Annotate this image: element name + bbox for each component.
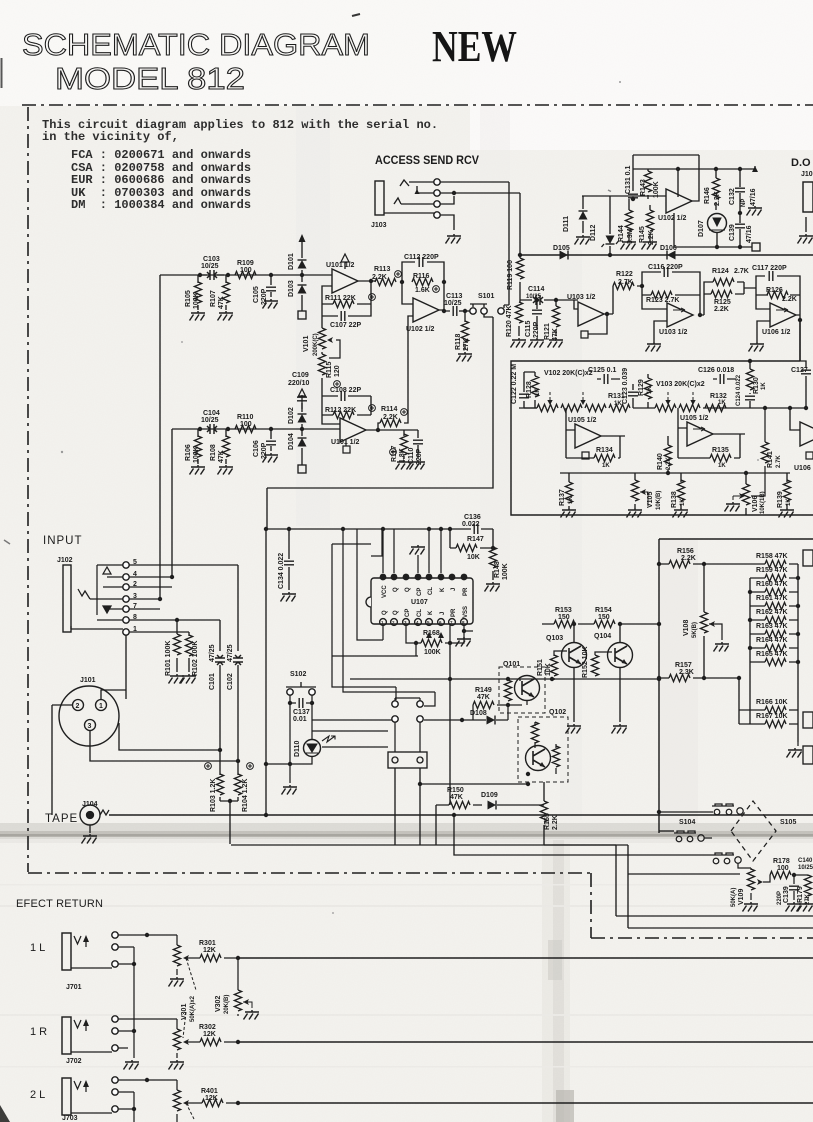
R145 2.2K <box>646 210 653 231</box>
C108 feedback <box>322 396 371 415</box>
R125 <box>704 282 744 294</box>
box outline <box>511 320 813 515</box>
pins <box>123 562 129 568</box>
CH2 main wire <box>172 428 340 430</box>
C124 <box>745 396 755 400</box>
rcv line down to bus <box>519 193 521 253</box>
R137 <box>568 473 570 508</box>
pot V401 <box>173 1090 180 1111</box>
op-amp U104 <box>667 303 693 327</box>
pot V105 <box>634 473 636 508</box>
left drop wire <box>160 275 172 599</box>
IC U107 body <box>371 578 473 624</box>
S102 left leg to ground <box>266 703 290 783</box>
R112 <box>322 415 371 424</box>
diode D102 <box>301 403 303 436</box>
R122 <box>613 282 634 289</box>
R126 <box>756 294 800 296</box>
main bus y=255 <box>521 254 813 256</box>
op-amp U101 1/2 <box>332 269 358 293</box>
edge connector stubs <box>803 550 813 566</box>
C116 loop <box>642 272 700 315</box>
capacitor C104 <box>207 424 217 434</box>
bias resistor in box <box>507 679 509 705</box>
wire up to R122 <box>612 286 614 314</box>
ladder ground <box>797 742 799 746</box>
top pins <box>380 574 468 581</box>
long wire 2L <box>238 1102 813 1104</box>
capacitor C102 <box>233 655 243 665</box>
D111 <box>579 211 588 220</box>
op-amp U102 1/2 <box>413 298 439 322</box>
resistor R105 <box>197 275 199 310</box>
bottom vertical smudge <box>542 840 570 1122</box>
ground <box>263 299 279 309</box>
resistor R103 <box>219 750 221 801</box>
jack J102 body <box>63 565 71 632</box>
op-amp U106 <box>770 303 796 327</box>
bottom pins <box>380 619 468 626</box>
C115 <box>536 300 538 330</box>
output <box>366 316 418 430</box>
R132 <box>705 404 726 411</box>
XLR wires <box>52 690 238 815</box>
node <box>269 273 273 277</box>
resistor R155 <box>543 782 545 845</box>
C110 <box>417 430 419 458</box>
R144 3.3M <box>625 210 632 231</box>
loop to pin1 <box>357 529 383 640</box>
resistor R148 <box>492 529 494 580</box>
switch S104 set2 <box>659 830 674 832</box>
capacitor C139 <box>793 875 795 900</box>
bottom rail with terminal square <box>674 213 752 247</box>
junction bar <box>220 801 238 844</box>
R116 <box>412 278 433 285</box>
dark corner mark bottom-left <box>0 1105 10 1122</box>
op-amp U103 1/2 <box>578 302 604 326</box>
terminal <box>298 465 306 473</box>
C113 <box>453 306 457 316</box>
resistor R109 <box>235 271 256 278</box>
R146 2.2K <box>712 178 719 199</box>
R135 <box>710 454 731 461</box>
C112 loop <box>402 262 444 282</box>
diode D104 <box>298 438 307 447</box>
R138 <box>680 473 682 508</box>
resistor R110 <box>235 425 256 432</box>
resistor R152 <box>595 652 612 679</box>
switch S104 set3 <box>712 853 741 864</box>
pot V109 <box>747 869 754 890</box>
top pin labels <box>382 585 469 598</box>
R134 <box>594 454 615 461</box>
R141 <box>751 408 765 496</box>
resistor R108 <box>225 429 227 464</box>
resistor R107 <box>225 275 227 310</box>
wire y679 <box>350 678 659 680</box>
capacitor C107 <box>322 304 371 316</box>
R121 <box>555 300 557 336</box>
R117 <box>403 430 405 459</box>
op-amp U101 1/2 ch2 <box>340 418 366 442</box>
pot V108 <box>703 564 705 678</box>
capacitor C137 <box>290 695 312 703</box>
wire set3 to V109 <box>738 863 751 870</box>
LED D110 <box>312 703 392 740</box>
switch arms <box>71 565 123 629</box>
resistor R106 <box>197 429 199 464</box>
R113 <box>375 278 396 285</box>
C123 <box>632 384 634 408</box>
crease band <box>0 823 813 839</box>
left edge tick <box>1 58 3 88</box>
capacitor C103 <box>207 270 217 280</box>
feedback loop R111 <box>322 281 371 304</box>
input wire to opamp <box>582 195 666 197</box>
resistor R102 <box>188 632 190 672</box>
op-amp U106 edge <box>800 422 813 446</box>
main row wire <box>519 408 806 430</box>
C122 <box>524 372 537 408</box>
wire out to arrow <box>678 166 755 169</box>
S103 contacts <box>332 529 435 706</box>
relay box <box>395 722 420 752</box>
pot V301b <box>176 1019 178 1058</box>
R123 <box>642 294 700 296</box>
R115 <box>318 354 325 375</box>
diode D105 <box>560 251 569 260</box>
R119 <box>519 255 521 300</box>
resistor R179 <box>794 875 808 900</box>
output junction <box>439 282 450 311</box>
diode D101 <box>301 270 303 282</box>
contacts <box>434 179 440 185</box>
pin up wires <box>383 529 441 573</box>
pin8 ground <box>464 625 473 631</box>
R114 <box>380 419 401 426</box>
R120 <box>519 300 520 336</box>
resistor R151 <box>554 651 567 680</box>
ladder rails <box>704 564 798 742</box>
capacitor C105 <box>270 275 272 297</box>
ground mid right <box>747 206 763 216</box>
C132 NP 47/16 <box>735 188 745 192</box>
ground <box>190 311 206 321</box>
C117 loop <box>744 276 800 315</box>
more sections appended below <box>160 253 509 599</box>
lower bus wires <box>231 845 813 916</box>
resistor R101 <box>176 620 178 672</box>
S101 drop <box>267 314 493 529</box>
R118 <box>464 311 466 350</box>
bus wire <box>266 528 452 530</box>
CH1 main wire <box>160 274 332 276</box>
supply arrow <box>344 262 346 269</box>
arrows under pins 5,6 <box>426 632 444 638</box>
R124 <box>700 282 744 315</box>
long wire 1R <box>238 1041 813 1043</box>
R128 <box>524 372 535 408</box>
D112 zener <box>606 236 615 245</box>
R143 100K <box>644 171 651 192</box>
wire y300 <box>520 300 578 309</box>
jack J103 body <box>375 181 384 215</box>
wires right <box>126 565 238 699</box>
right bus <box>659 539 813 833</box>
pot V301a <box>147 935 177 975</box>
long wire 1L <box>238 957 813 959</box>
ground <box>218 311 234 321</box>
wires to right <box>440 182 520 230</box>
resistor R104 <box>237 761 239 801</box>
lower row wire <box>560 472 790 474</box>
R130 <box>749 361 751 394</box>
bottom pin labels <box>382 606 469 618</box>
long vertical from R168 to R150 <box>449 643 451 805</box>
node <box>226 273 230 277</box>
D107 LED <box>708 214 727 233</box>
terminal <box>298 311 306 319</box>
output wire <box>358 280 375 282</box>
diode D106 <box>667 251 676 260</box>
C139 NP 47/16 <box>735 224 745 228</box>
R139 <box>786 473 788 508</box>
Q102 lower wire <box>420 782 528 784</box>
supply arrow above D101 <box>301 242 303 258</box>
faint horizontal streaks bottom <box>0 905 813 907</box>
C114 <box>533 295 543 305</box>
scan speckles <box>352 14 360 16</box>
capacitor C101 <box>215 655 225 665</box>
op-amp U102 1/2 (top) <box>666 189 692 213</box>
jack switch wires <box>384 180 434 213</box>
capacitor C134 <box>288 529 290 590</box>
R140 <box>667 436 669 473</box>
op-amp U105 1/2 b <box>687 422 713 446</box>
V101 pot <box>321 316 323 354</box>
pot V106 <box>745 473 747 515</box>
op-amp U105 1/2 a <box>575 424 601 448</box>
R129 <box>647 374 649 408</box>
R131 <box>609 404 630 411</box>
capacitor C106 <box>270 429 272 451</box>
diode D103 <box>298 285 307 294</box>
pin number texts <box>381 620 465 625</box>
wire from jack line1 down <box>508 182 510 305</box>
D110 wire to Q102 <box>322 747 420 845</box>
tape long wire <box>109 814 813 816</box>
long vertical from bus to tape wire <box>265 529 267 815</box>
node <box>198 273 202 277</box>
